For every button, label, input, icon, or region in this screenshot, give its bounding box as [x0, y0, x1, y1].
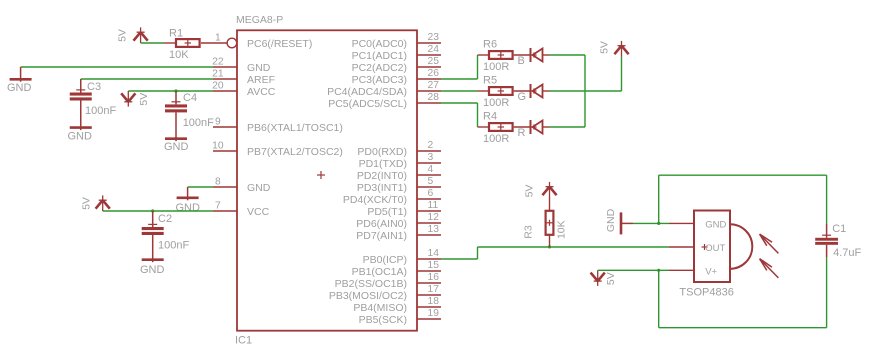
wire R4 to LED R	[514, 126, 531, 128]
svg-text:PB2(SS/OC1B): PB2(SS/OC1B)	[335, 278, 407, 290]
svg-text:24: 24	[428, 44, 440, 55]
svg-text:100nF: 100nF	[183, 117, 214, 129]
wire TSOP GND	[633, 222, 669, 224]
svg-text:AVCC: AVCC	[247, 86, 276, 98]
wire R6 to LED B	[514, 54, 531, 56]
svg-text:2: 2	[428, 140, 434, 151]
label C4	[183, 92, 197, 104]
svg-text:9: 9	[215, 116, 221, 127]
svg-text:28: 28	[428, 92, 440, 103]
ground (TSOP) rotated bar	[621, 212, 633, 234]
wire loop left lower	[658, 270, 660, 327]
svg-text:PD2(INT0): PD2(INT0)	[357, 170, 407, 182]
resistor R3 top lead	[549, 198, 551, 211]
wire TSOP V+	[598, 269, 669, 271]
pin 4 line	[417, 174, 441, 176]
pin number 14	[428, 248, 440, 259]
pin 8 line	[213, 186, 237, 188]
svg-text:PD3(INT1): PD3(INT1)	[357, 182, 407, 194]
pin 27 line	[417, 90, 441, 92]
pin number 16	[428, 272, 440, 283]
pin 10 line	[213, 150, 237, 152]
svg-text:22: 22	[212, 56, 224, 67]
pin name PC3(ADC3)	[352, 74, 407, 86]
label 5V vertical (VCC)	[80, 197, 92, 210]
TSOP pin V+	[669, 269, 694, 271]
pin 11 line	[417, 210, 441, 212]
pin number 20	[212, 80, 224, 91]
svg-text:C2: C2	[158, 213, 172, 225]
svg-text:1: 1	[215, 32, 221, 43]
svg-text:14: 14	[428, 248, 440, 259]
label B	[518, 55, 525, 67]
svg-text:R5: R5	[483, 75, 497, 87]
ground (pin22 net)	[10, 67, 32, 82]
wire loop top	[659, 174, 827, 176]
TSOP label GND	[705, 219, 726, 230]
pin name PC1(ADC1)	[352, 50, 407, 62]
label 4.7uF	[833, 247, 861, 259]
svg-text:5V: 5V	[116, 29, 128, 42]
pin name PD5(T1)	[367, 206, 407, 218]
pin 14 line	[417, 258, 441, 260]
pin number 6	[428, 188, 434, 199]
resistor R4	[489, 123, 513, 131]
pin name PB0(ICP)	[363, 254, 407, 266]
pin number 25	[428, 56, 440, 67]
label 100nF (C3)	[85, 105, 116, 117]
5V supply arrow (LED)	[614, 41, 628, 57]
label GND vertical (TSOP gnd)	[605, 208, 617, 232]
svg-text:GND: GND	[176, 202, 201, 214]
LED G right lead	[543, 90, 550, 92]
TSOP label V+	[705, 267, 717, 278]
label 5V vertical (AVCC)	[138, 93, 150, 106]
pin 17 line	[417, 294, 441, 296]
TSOP label OUT	[705, 243, 725, 254]
svg-text:17: 17	[428, 284, 440, 295]
svg-text:PB6(XTAL1/TOSC1): PB6(XTAL1/TOSC1)	[247, 122, 343, 134]
wire PC3 to R6	[441, 55, 478, 79]
LED G diode	[531, 84, 543, 98]
resistor R5	[489, 87, 513, 95]
svg-text:R4: R4	[483, 111, 497, 123]
wire LED B to bus	[550, 54, 586, 56]
svg-text:100nF: 100nF	[85, 105, 116, 117]
label C3	[87, 81, 101, 93]
wire PC4 to R5	[441, 90, 478, 92]
svg-text:15: 15	[428, 260, 440, 271]
pin 1 PC6(/RESET) with inversion bubble	[227, 38, 237, 48]
svg-text:16: 16	[428, 272, 440, 283]
resistor R3 bottom lead	[549, 235, 551, 247]
wire loop right lower	[826, 257, 828, 327]
svg-text:12: 12	[428, 212, 440, 223]
label MEGA8-P	[236, 14, 283, 26]
pin name PD1(TXD)	[359, 158, 407, 170]
wire C3 to ground	[80, 101, 82, 128]
svg-text:PB3(MOSI/OC2): PB3(MOSI/OC2)	[329, 290, 407, 302]
svg-text:C4: C4	[183, 92, 197, 104]
label C2	[158, 213, 172, 225]
pin 21 line	[213, 78, 237, 80]
TSOP origin cross	[702, 244, 708, 250]
svg-text:R6: R6	[483, 39, 497, 51]
svg-text:R: R	[518, 127, 526, 139]
pin number 17	[428, 284, 440, 295]
resistor R6	[489, 51, 513, 59]
svg-text:3: 3	[428, 152, 434, 163]
pin 13 line	[417, 234, 441, 236]
wire C2 to ground	[152, 235, 154, 260]
ground (C3)	[70, 126, 92, 130]
svg-text:PD7(AIN1): PD7(AIN1)	[356, 230, 407, 242]
pin number 28	[428, 92, 440, 103]
svg-text:MEGA8-P: MEGA8-P	[236, 14, 283, 26]
LED B diode	[531, 48, 543, 62]
svg-text:5: 5	[428, 176, 434, 187]
svg-text:21: 21	[212, 68, 224, 79]
svg-text:G: G	[518, 91, 527, 103]
label R6	[483, 39, 497, 51]
svg-text:GND: GND	[705, 219, 726, 230]
resistor R5 left lead	[478, 90, 490, 92]
label 5V vertical (LED)	[598, 41, 610, 54]
pin 12 line	[417, 222, 441, 224]
svg-text:5V: 5V	[598, 41, 610, 54]
wire C4 to ground	[175, 112, 177, 138]
pin number 9	[215, 116, 221, 127]
pin 16 line	[417, 282, 441, 284]
pin 7 line	[213, 210, 237, 212]
pin 5 line	[417, 186, 441, 188]
svg-text:C1: C1	[832, 223, 846, 235]
pin name PD6(AIN0)	[356, 218, 407, 230]
svg-text:PC5(ADC5/SCL): PC5(ADC5/SCL)	[328, 98, 407, 110]
label 10K vertical (R3)	[555, 220, 567, 239]
label C1	[832, 223, 846, 235]
pin 3 line	[417, 162, 441, 164]
LED B right lead	[543, 54, 550, 56]
svg-text:TSOP4836: TSOP4836	[679, 287, 733, 299]
svg-text:13: 13	[428, 224, 440, 235]
label 100R (R5)	[483, 97, 509, 109]
svg-text:GND: GND	[247, 182, 271, 194]
5V supply arrow down (AVCC)	[121, 91, 135, 107]
pin number 15	[428, 260, 440, 271]
svg-text:PD6(AIN0): PD6(AIN0)	[356, 218, 407, 230]
5V supply arrow (R3)	[542, 182, 556, 198]
pin name PD2(INT0)	[357, 170, 407, 182]
svg-text:25: 25	[428, 56, 440, 67]
label R1	[169, 27, 183, 39]
pin name PC4(ADC4/SDA)	[327, 86, 407, 98]
label 5V vertical (R3)	[523, 185, 535, 198]
pin number 7	[215, 200, 221, 211]
wire AREF pin21	[81, 78, 213, 80]
wire loop left upper	[658, 175, 660, 223]
svg-text:PB5(SCK): PB5(SCK)	[359, 314, 407, 326]
pin name VCC	[247, 206, 270, 218]
pin name PB1(OC1A)	[352, 266, 407, 278]
svg-text:GND: GND	[605, 208, 617, 232]
junction at C4 tap	[174, 89, 177, 92]
resistor R6 left lead	[478, 54, 490, 56]
wire GND pin22	[21, 66, 213, 68]
svg-text:4.7uF: 4.7uF	[833, 247, 861, 259]
svg-text:10K: 10K	[555, 220, 567, 239]
pin name PD0(RXD)	[357, 146, 407, 158]
svg-text:PD4(XCK/T0): PD4(XCK/T0)	[343, 194, 407, 206]
wire AVCC pin20	[128, 90, 213, 92]
pin number 21	[212, 68, 224, 79]
wire LED G to 5V	[550, 57, 622, 92]
5V supply arrow (VCC)	[96, 195, 110, 211]
svg-text:5V: 5V	[80, 197, 92, 210]
wire 5V to R1	[141, 42, 164, 44]
svg-text:GND: GND	[7, 82, 32, 94]
svg-text:23: 23	[428, 32, 440, 43]
pin name PB4(MISO)	[353, 302, 407, 314]
pin name PB6(XTAL1/TOSC1)	[247, 122, 343, 134]
pin name AVCC	[247, 86, 276, 98]
resistor R3	[546, 211, 554, 235]
junction at C2 tap	[151, 209, 154, 212]
svg-text:11: 11	[428, 200, 439, 211]
svg-text:7: 7	[215, 200, 221, 211]
pin number 1	[215, 32, 221, 43]
pin name PB3(MOSI/OC2)	[329, 290, 407, 302]
pin 19 line	[417, 318, 441, 320]
svg-text:6: 6	[428, 188, 434, 199]
LED R diode	[531, 120, 543, 134]
pin 20 line	[213, 90, 237, 92]
label 5V vertical (V+)	[605, 272, 617, 285]
capacitor C3	[70, 79, 92, 101]
svg-text:8: 8	[215, 176, 221, 187]
resistor R1 left lead	[164, 42, 176, 44]
wire PB0 to TSOP OUT	[441, 247, 669, 259]
pin 25 line	[417, 66, 441, 68]
pin 9 line	[213, 126, 237, 128]
label GND (pin8)	[176, 202, 201, 214]
pin name PB7(XTAL2/TOSC2)	[247, 146, 343, 158]
label 10K	[169, 49, 189, 61]
pin number 10	[212, 140, 224, 151]
pin name PC6(/RESET)	[247, 38, 312, 50]
LED R right lead	[543, 126, 550, 128]
svg-text:19: 19	[428, 308, 440, 319]
pin 23 line	[417, 42, 441, 44]
svg-text:PB1(OC1A): PB1(OC1A)	[352, 266, 407, 278]
label 100nF (C4)	[183, 117, 214, 129]
label TSOP4836	[679, 287, 733, 299]
label GND (C2)	[140, 264, 165, 276]
pin name GND	[247, 62, 271, 74]
label 100R (R6)	[483, 61, 509, 73]
label 100nF (C2)	[158, 240, 189, 252]
label R5	[483, 75, 497, 87]
svg-text:OUT: OUT	[705, 243, 725, 254]
label 5V vertical (R1)	[116, 29, 128, 42]
svg-text:GND: GND	[164, 141, 189, 153]
wire vertical LED bus	[584, 55, 586, 127]
svg-text:100R: 100R	[483, 97, 509, 109]
pin number 11	[428, 200, 439, 211]
pin name PB5(SCK)	[359, 314, 407, 326]
pin number 22	[212, 56, 224, 67]
ground (pin8)	[177, 187, 199, 200]
svg-text:10: 10	[212, 140, 224, 151]
svg-text:PC2(ADC2): PC2(ADC2)	[352, 62, 407, 74]
5V supply arrow (R1)	[134, 27, 148, 43]
wire LED R to bus	[550, 126, 586, 128]
svg-text:18: 18	[428, 296, 440, 307]
svg-text:100nF: 100nF	[158, 240, 189, 252]
wire loop right upper	[826, 175, 828, 224]
svg-text:IC1: IC1	[235, 335, 252, 347]
pin name GND	[247, 182, 271, 194]
capacitor C4	[165, 91, 187, 112]
pin number 18	[428, 296, 440, 307]
label GND (pin22 net)	[7, 82, 32, 94]
svg-text:5V: 5V	[523, 185, 535, 198]
pin name PC0(ADC0)	[352, 38, 407, 50]
svg-text:4: 4	[428, 164, 434, 175]
svg-text:R1: R1	[169, 27, 183, 39]
wire PC5 to R4	[441, 103, 478, 127]
ground (C2)	[142, 258, 164, 262]
svg-text:AREF: AREF	[247, 74, 275, 86]
pin number 19	[428, 308, 440, 319]
label G	[518, 91, 527, 103]
pin 26 line	[417, 78, 441, 80]
svg-text:100R: 100R	[483, 61, 509, 73]
ground (C4)	[165, 137, 187, 141]
svg-text:PD0(RXD): PD0(RXD)	[357, 146, 407, 158]
svg-text:GND: GND	[140, 264, 165, 276]
svg-text:5V: 5V	[605, 272, 617, 285]
pin number 26	[428, 68, 440, 79]
svg-text:GND: GND	[68, 131, 93, 143]
TSOP4836 U2 body	[694, 211, 730, 283]
pin number 5	[428, 176, 434, 187]
wire R1 to pin1	[201, 42, 227, 44]
pin 24 line	[417, 54, 441, 56]
pin number 3	[428, 152, 434, 163]
pin name PD4(XCK/T0)	[343, 194, 407, 206]
svg-text:5V: 5V	[138, 93, 150, 106]
5V supply arrow down (V+)	[591, 270, 605, 286]
pin number 4	[428, 164, 434, 175]
label R4	[483, 111, 497, 123]
TSOP pin GND	[669, 222, 694, 224]
pin number 24	[428, 44, 440, 55]
pin name AREF	[247, 74, 275, 86]
svg-text:PC3(ADC3): PC3(ADC3)	[352, 74, 407, 86]
pin name PC5(ADC5/SCL)	[328, 98, 407, 110]
capacitor C1	[815, 224, 838, 257]
pin name PB2(SS/OC1B)	[335, 278, 407, 290]
pin 2 line	[417, 150, 441, 152]
svg-text:20: 20	[212, 80, 224, 91]
IC U1 IC1 MEGA8-P body	[237, 30, 417, 330]
TSOP dome	[730, 224, 752, 269]
capacitor C2	[142, 211, 164, 235]
pin number 8	[215, 176, 221, 187]
pin number 27	[428, 80, 440, 91]
wire VCC pin7	[103, 210, 213, 212]
svg-text:GND: GND	[247, 62, 271, 74]
pin number 2	[428, 140, 434, 151]
svg-text:C3: C3	[87, 81, 101, 93]
svg-text:B: B	[518, 55, 525, 67]
IC1 origin cross	[317, 171, 325, 179]
pin 6 line	[417, 198, 441, 200]
svg-text:PB7(XTAL2/TOSC2): PB7(XTAL2/TOSC2)	[247, 146, 343, 158]
svg-text:PB0(ICP): PB0(ICP)	[363, 254, 407, 266]
junction TSOP V+ / loop	[657, 269, 660, 272]
pin 15 line	[417, 270, 441, 272]
svg-text:PC0(ADC0): PC0(ADC0)	[352, 38, 407, 50]
svg-text:10K: 10K	[169, 49, 189, 61]
wire R5 to LED G	[514, 90, 531, 92]
pin name PD3(INT1)	[357, 182, 407, 194]
label R	[518, 127, 526, 139]
junction at R3 tap	[548, 245, 551, 248]
svg-text:PD1(TXD): PD1(TXD)	[359, 158, 407, 170]
wire loop bottom	[659, 327, 827, 329]
svg-text:PC4(ADC4/SDA): PC4(ADC4/SDA)	[327, 86, 407, 98]
svg-text:VCC: VCC	[247, 206, 270, 218]
junction TSOP GND / loop	[657, 222, 660, 225]
label IC1	[235, 335, 252, 347]
resistor R1	[176, 39, 200, 47]
svg-text:V+: V+	[705, 267, 717, 278]
pin name PC2(ADC2)	[352, 62, 407, 74]
svg-text:PC6(/RESET): PC6(/RESET)	[247, 38, 312, 50]
label GND (C3)	[68, 131, 93, 143]
svg-text:27: 27	[428, 80, 440, 91]
pin number 13	[428, 224, 440, 235]
pin name PD7(AIN1)	[356, 230, 407, 242]
svg-text:PB4(MISO): PB4(MISO)	[353, 302, 407, 314]
TSOP pin OUT	[669, 246, 694, 248]
svg-text:PD5(T1): PD5(T1)	[367, 206, 407, 218]
pin 18 line	[417, 306, 441, 308]
TSOP IR arrow 2	[760, 259, 779, 278]
svg-text:100R: 100R	[483, 133, 509, 145]
pin number 12	[428, 212, 440, 223]
wire GND pin8	[188, 186, 213, 188]
svg-text:R3: R3	[522, 225, 534, 239]
label R3 vertical	[522, 225, 534, 239]
resistor R4 left lead	[478, 126, 490, 128]
svg-text:26: 26	[428, 68, 440, 79]
label GND (C4)	[164, 141, 189, 153]
pin 28 line	[417, 102, 441, 104]
TSOP IR arrow 1	[760, 234, 779, 253]
pin 22 line	[213, 66, 237, 68]
svg-text:PC1(ADC1): PC1(ADC1)	[352, 50, 407, 62]
pin number 23	[428, 32, 440, 43]
label 100R (R4)	[483, 133, 509, 145]
